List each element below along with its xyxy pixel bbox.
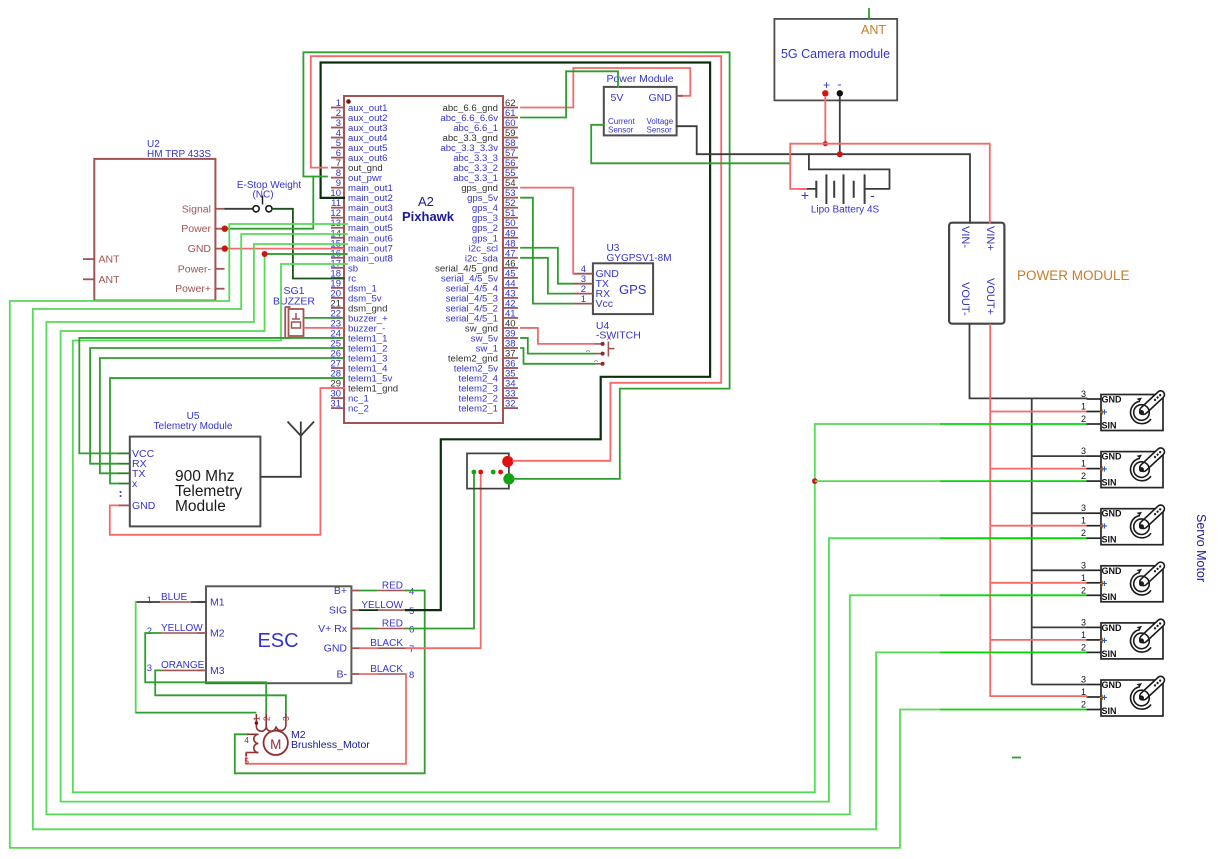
- svg-text:SIN: SIN: [1102, 706, 1117, 716]
- svg-text:x: x: [132, 478, 138, 490]
- E-stop right contact circle: [266, 206, 272, 212]
- POWER MODULE body: [949, 223, 1004, 324]
- svg-text:GND: GND: [1102, 509, 1123, 519]
- A2 pin 9 main_out1 stub: [331, 187, 344, 189]
- svg-text:Pixhawk: Pixhawk: [402, 209, 455, 224]
- junction dot U2 Power: [222, 226, 228, 232]
- wire ESC M3 to motor pin3: [155, 670, 286, 714]
- servo motor 1 body: [1101, 395, 1163, 431]
- wire U2 Power jog to out_pwr rail: [225, 177, 314, 229]
- svg-text:SIN: SIN: [1102, 535, 1117, 545]
- svg-text:Telemetry Module: Telemetry Module: [154, 421, 233, 432]
- servo motor 1 pin + stub/number/name: [1087, 411, 1102, 413]
- U5 hidden pins dots: [120, 491, 122, 493]
- svg-text:1: 1: [1081, 459, 1086, 469]
- servo 1 SIN bright segment: [940, 423, 1087, 425]
- A2 pin 4 aux_out4 stub: [331, 137, 344, 139]
- A2 pin 43 serial_4/5_3 stub: [503, 297, 518, 299]
- A2 pin 42 serial_4/5_2 stub: [503, 307, 518, 309]
- junction dot row16 wire: [262, 251, 268, 257]
- servo motor 3 pin + stub/number/name: [1087, 525, 1102, 527]
- wire net main_out loop A2 row14 to servo 5 SIN: [33, 234, 940, 829]
- wire net main_out loop A2 row17 to servo 1 SIN: [73, 264, 940, 792]
- motor M2 pin 4 lead: [247, 733, 258, 735]
- A2 pin 49 gps_1 stub: [503, 237, 518, 239]
- wire A2 pin24 to telemetry module (dark green): [79, 338, 344, 453]
- A2 pin 44 serial_4/5_4 stub: [503, 287, 518, 289]
- servo motor 2 pin + stub/number/name: [1087, 468, 1102, 470]
- A2 pin 36 telem2_5v stub: [503, 367, 518, 369]
- svg-text:VIN-: VIN-: [959, 226, 971, 248]
- svg-text:nc_2: nc_2: [348, 404, 369, 415]
- svg-text:GND: GND: [132, 500, 156, 512]
- svg-text:B+: B+: [334, 585, 347, 597]
- junction dot camera minus on black bus: [837, 151, 843, 157]
- U2 pin Power+ stub: [215, 288, 224, 290]
- svg-text:GND: GND: [1102, 566, 1123, 576]
- motor M2 top coil: [256, 726, 285, 731]
- svg-text:+: +: [823, 78, 830, 92]
- A2 pin 5 aux_out5 stub: [331, 147, 344, 149]
- servo GND bus branch 2: [1032, 455, 1087, 457]
- A2 pin 16 main_out8 stub: [331, 257, 344, 259]
- A2 Pixhawk pin-1 indicator dot: [346, 99, 351, 104]
- svg-text:SIN: SIN: [1102, 649, 1117, 659]
- U4 switch pin stubs and contacts: [594, 343, 602, 345]
- svg-text:Signal: Signal: [182, 203, 211, 215]
- motor M2 pin 5 lead: [247, 752, 258, 754]
- svg-text:SIN: SIN: [1102, 592, 1117, 602]
- antenna of telemetry module: [260, 436, 300, 477]
- svg-text:GND: GND: [1102, 452, 1123, 462]
- A2 pin 19 dsm_1 stub: [331, 287, 344, 289]
- svg-text:SIN: SIN: [1102, 478, 1117, 488]
- A2 pin 54 gps_gnd stub: [503, 187, 518, 189]
- svg-text:ESC: ESC: [257, 630, 298, 652]
- stray green dash bottom right: [1012, 757, 1021, 759]
- wire ESC M1 black segment: [191, 601, 206, 603]
- servo motor 6 pin + stub/number/name: [1087, 696, 1102, 698]
- servo motor 4 pin SIN stub/number/name: [1087, 594, 1102, 596]
- svg-text:telem2_1: telem2_1: [459, 404, 498, 415]
- op-amp-style MCU block A2 Pixhawk body: [344, 96, 503, 423]
- A2 pin 23 buzzer_- stub: [331, 327, 344, 329]
- svg-text:ANT: ANT: [861, 23, 886, 37]
- svg-text:ANT: ANT: [99, 254, 121, 266]
- svg-text:+: +: [1102, 522, 1108, 533]
- svg-text:3: 3: [281, 716, 291, 721]
- wire A2 pin26 to telemetry module (dark green): [100, 358, 344, 473]
- servo motor 1 pin SIN stub/number/name: [1087, 423, 1102, 425]
- A2 pin 22 buzzer_+ stub: [331, 317, 344, 319]
- wire net out_gnd: A2 pin7 loop to connector red dot: [311, 56, 721, 461]
- connector block body: [467, 453, 509, 488]
- A2 pin 12 main_out4 stub: [331, 217, 344, 219]
- svg-text:GPS: GPS: [619, 282, 647, 297]
- A2 pin 24 telem1_1 stub: [331, 337, 344, 339]
- A2 pin 21 dsm_gnd stub: [331, 307, 344, 309]
- servo motor 6 rotor icon: [1138, 675, 1166, 702]
- A2 pin 45 serial_4/5_5v stub: [503, 277, 518, 279]
- U2 pin ANT stub: [83, 278, 94, 280]
- A2 pin 47 i2c_sda stub: [503, 257, 518, 259]
- wire ESC GND up to connector (red): [360, 647, 377, 649]
- svg-text:31: 31: [330, 399, 341, 410]
- servo + bus bottom branch 6: [990, 695, 1086, 697]
- servo motor 6 pin SIN stub/number/name: [1087, 709, 1102, 711]
- A2 pin 38 sw_1 stub: [503, 347, 518, 349]
- motor M2 circle body: [264, 731, 288, 755]
- A2 pin 61 abc_6.6_6.6v stub: [503, 117, 518, 119]
- A2 pin 53 gps_5v stub: [503, 197, 518, 199]
- ESC body: [206, 586, 351, 683]
- svg-text:4: 4: [244, 735, 249, 745]
- A2 pin 27 telem1_4 stub: [331, 367, 344, 369]
- wire camera + down to red bus: [824, 96, 826, 144]
- svg-text:GND: GND: [1102, 680, 1123, 690]
- ESC pin GND stub: [351, 647, 360, 649]
- A2 pin 20 dsm_5v stub: [331, 297, 344, 299]
- A2 pin 34 telem2_3 stub: [503, 387, 518, 389]
- U3 pin 3 TX stub: [573, 283, 593, 285]
- battery + terminal stub: [798, 188, 816, 190]
- svg-text:Lipo Battery 4S: Lipo Battery 4S: [811, 205, 880, 216]
- buzzer SG1 body: [289, 309, 304, 336]
- wire A2 pin39 sw_5v to U4: [521, 338, 594, 354]
- camera + pin dot: [822, 90, 828, 96]
- camera - pin dot: [837, 90, 843, 96]
- A2 pin 32 telem2_1 stub: [503, 407, 518, 409]
- wire A2 pin54 gps_gnd to U3 GND: [521, 188, 573, 274]
- svg-text:8: 8: [409, 670, 414, 681]
- battery - terminal bracket: [809, 154, 890, 189]
- servo GND bus branch 6: [1032, 684, 1087, 686]
- wire net main_out loop A2 row15 to servo 4 SIN: [46, 244, 940, 814]
- servo motor 2 body: [1101, 452, 1163, 488]
- svg-text:B-: B-: [337, 669, 348, 681]
- wire Power Module Voltage Sensor to VIN- (black): [677, 126, 970, 223]
- svg-text:Power-: Power-: [178, 263, 212, 275]
- E-stop actuator lever: [262, 196, 264, 205]
- svg-text:2: 2: [147, 626, 152, 637]
- wire buzzer - to A2 pin23 buzzer_-: [304, 327, 345, 329]
- servo 4 SIN bright segment: [940, 594, 1087, 596]
- ESC pin M2 stub: [197, 632, 206, 634]
- svg-text:32: 32: [505, 399, 516, 410]
- wire A2 pin62 abc_6.6_gnd to Power Module GND: [521, 68, 690, 108]
- wire camera - to black bus: [839, 96, 841, 154]
- ESC pin V+ Rx stub: [351, 628, 360, 630]
- svg-text:7: 7: [409, 644, 414, 655]
- svg-text:2: 2: [1081, 700, 1086, 710]
- svg-text:-: -: [870, 187, 875, 203]
- A2 pin 10 main_out2 stub: [331, 197, 344, 199]
- svg-text:BUZZER: BUZZER: [273, 296, 315, 308]
- A2 pin 52 gps_4 stub: [503, 207, 518, 209]
- wire U2 Signal to E-stop left contact: [225, 208, 253, 210]
- svg-text:5G Camera module: 5G Camera module: [781, 47, 890, 61]
- svg-text:GND: GND: [1102, 623, 1123, 633]
- svg-text:GND: GND: [324, 643, 348, 655]
- wire A2 pin53 gps_5v to U3 Vcc: [521, 198, 573, 304]
- U4 switch bar: [607, 342, 609, 357]
- svg-text:2: 2: [1081, 642, 1086, 652]
- motor M2 pin 3 lead: [285, 714, 287, 726]
- wire net out_pwr/U2 Power: connector green dot loop: [303, 52, 729, 479]
- U2 pin Signal stub: [215, 208, 224, 210]
- U5 pin GND stub: [118, 504, 130, 506]
- servo motor 3 pin GND stub/number/name: [1087, 512, 1102, 514]
- svg-text:2: 2: [1081, 585, 1086, 595]
- svg-text:2: 2: [1081, 471, 1086, 481]
- servo motor 3 pin SIN stub/number/name: [1087, 537, 1102, 539]
- A2 pin 8 out_pwr stub: [331, 177, 344, 179]
- U3 pin 1 Vcc stub: [573, 303, 593, 305]
- svg-text:3: 3: [1081, 446, 1086, 456]
- servo + bus branch 3: [990, 525, 1086, 527]
- svg-text:ORANGE: ORANGE: [161, 660, 205, 671]
- svg-text:3: 3: [1081, 617, 1086, 627]
- svg-text:Sensor: Sensor: [647, 126, 673, 135]
- servo + bus branch 2: [990, 468, 1086, 470]
- svg-text:6: 6: [409, 625, 414, 636]
- wire ESC B- to motor pin5 loop (red): [360, 673, 377, 675]
- servo motor 4 body: [1101, 566, 1163, 602]
- connector big green pin dot: [503, 473, 514, 484]
- wire VOUT+ to servo + bus (red): [989, 324, 991, 696]
- servo motor 4 rotor icon: [1138, 561, 1166, 588]
- servo motor 5 pin + stub/number/name: [1087, 639, 1102, 641]
- ESC pin B- stub: [351, 673, 360, 675]
- wire ESC M1 to motor pin1: [135, 602, 137, 713]
- servo motor 5 pin GND stub/number/name: [1087, 626, 1102, 628]
- servo motor 4 pin GND stub/number/name: [1087, 569, 1102, 571]
- ESC pin M1 stub: [197, 601, 206, 603]
- A2 pin 55 abc_3.3_1 stub: [503, 177, 518, 179]
- wire VOUT- to servo GND bus (black): [970, 324, 1087, 399]
- svg-text:2: 2: [1081, 414, 1086, 424]
- ESC pin B+ stub: [351, 590, 360, 592]
- A2 pin 3 aux_out3 stub: [331, 127, 344, 129]
- svg-text:5: 5: [244, 756, 249, 766]
- servo 6 SIN bright segment: [940, 709, 1087, 711]
- U2 pin ANT stub: [83, 258, 94, 260]
- svg-text:3: 3: [1081, 675, 1086, 685]
- A2 pin 39 sw_5v stub: [503, 337, 518, 339]
- servo motor 5 pin SIN stub/number/name: [1087, 651, 1102, 653]
- wire Power Module Current Sensor to battery +: [591, 125, 790, 164]
- servo motor 4 pin + stub/number/name: [1087, 582, 1102, 584]
- A2 pin 59 abc_3.3_gnd stub: [503, 137, 518, 139]
- svg-text:+: +: [1102, 408, 1108, 419]
- svg-text:Power+: Power+: [175, 283, 211, 295]
- svg-text:-: -: [838, 77, 842, 91]
- junction dot U2 GND: [222, 245, 228, 251]
- servo 5 SIN bright segment: [940, 651, 1087, 653]
- junction dot camera plus on red bus: [823, 141, 828, 146]
- svg-text:-SWITCH: -SWITCH: [596, 330, 641, 342]
- svg-text:GND: GND: [1102, 395, 1123, 405]
- U3 pin 4 GND stub: [573, 273, 593, 275]
- 5G camera module body: [774, 19, 897, 101]
- servo + bus branch 4: [990, 582, 1086, 584]
- svg-text:GND: GND: [649, 92, 673, 104]
- servo2 SIN branch from loop junction: [812, 478, 818, 484]
- A2 pin 7 out_gnd stub: [331, 167, 344, 169]
- A2 pin 17 sb stub: [331, 267, 344, 269]
- svg-text:M: M: [270, 737, 281, 752]
- svg-text:M2: M2: [210, 628, 225, 640]
- svg-text:5: 5: [409, 606, 414, 617]
- A2 pin 26 telem1_3 stub: [331, 357, 344, 359]
- A2 pin 48 i2c_scl stub: [503, 247, 518, 249]
- A2 pin 28 telem1_5v stub: [331, 377, 344, 379]
- svg-text:3: 3: [1081, 503, 1086, 513]
- U2 pin Power- stub: [215, 268, 224, 270]
- wire A2 pin40 sw_gnd to U4: [521, 328, 594, 344]
- A2 pin 35 telem2_4 stub: [503, 377, 518, 379]
- servo motor 5 rotor icon: [1138, 618, 1166, 645]
- wire A2 pin38 sw_1 to U4: [521, 348, 594, 364]
- wire ESC B+ to motor pin4 loop: [235, 591, 425, 774]
- GPS module U3 body: [593, 263, 653, 314]
- Power Module body: [604, 87, 677, 135]
- servo GND bus branch 4: [1032, 569, 1087, 571]
- svg-text:ANT: ANT: [99, 274, 121, 286]
- wire battery + to VIN+ (red): [790, 144, 990, 223]
- Lipo battery plates: [815, 181, 817, 198]
- E-stop left contact circle: [253, 206, 259, 212]
- svg-text:1: 1: [1081, 516, 1086, 526]
- svg-text:SIN: SIN: [1102, 421, 1117, 431]
- servo + bus branch 1: [990, 411, 1086, 413]
- svg-text:A2: A2: [418, 194, 434, 209]
- A2 pin 15 main_out7 stub: [331, 247, 344, 249]
- U3 pin 2 RX stub: [573, 293, 593, 295]
- U5 pin VCC stub: [118, 452, 130, 454]
- wire A2 pin16 dark segment to junction: [265, 253, 347, 255]
- wire A2 pin61 abc_6.6_6.6v to Power Module 5V: [521, 71, 618, 117]
- U2 pin GND stub: [215, 248, 224, 250]
- A2 pin 58 abc_3.3_3.3v stub: [503, 147, 518, 149]
- servo motor 5 body: [1101, 623, 1163, 659]
- wire net main_out loop A2 row13 to servo 6 SIN: [10, 224, 940, 848]
- A2 pin 56 abc_3.3_2 stub: [503, 167, 518, 169]
- servo motor 1 pin GND stub/number/name: [1087, 398, 1102, 400]
- svg-text:1: 1: [1081, 573, 1086, 583]
- A2 pin 14 main_out6 stub: [331, 237, 344, 239]
- servo motor 3 body: [1101, 509, 1163, 545]
- ESC pin SIG stub: [351, 609, 360, 611]
- svg-text:+: +: [1102, 579, 1108, 590]
- wire U2 GND to A2 pin15 main_out7: [225, 248, 345, 250]
- wire ESC SIG to A2 main_out2 (dark): [360, 609, 377, 611]
- A2 pin 18 rc stub: [331, 277, 344, 279]
- svg-text:Servo Motor: Servo Motor: [1194, 514, 1208, 582]
- svg-text:1: 1: [1081, 402, 1086, 412]
- servo GND bus vertical: [1031, 398, 1033, 684]
- wire ESC M2 to motor pin2: [145, 633, 266, 714]
- U5 pin x stub: [118, 483, 130, 485]
- wire ESC V+Rx up to connector: [360, 628, 377, 630]
- A2 pin 6 aux_out6 stub: [331, 157, 344, 159]
- wire A2 pin48 i2c_scl to U3 TX: [521, 248, 573, 284]
- A2 pin 29 telem1_gnd stub: [331, 387, 344, 389]
- svg-text:M1: M1: [210, 597, 225, 609]
- U5 pin RX stub: [118, 463, 130, 465]
- A2 pin 57 abc_3.3_3 stub: [503, 157, 518, 159]
- svg-text:3: 3: [1081, 560, 1086, 570]
- svg-text:4: 4: [409, 587, 414, 598]
- A2 pin 51 gps_3 stub: [503, 217, 518, 219]
- servo + bus branch 5: [990, 639, 1086, 641]
- servo motor 3 rotor icon: [1138, 503, 1166, 530]
- A2 pin 13 main_out5 stub: [331, 227, 344, 229]
- servo 3 SIN bright segment: [940, 537, 1087, 539]
- A2 pin 41 serial_4/5_1 stub: [503, 317, 518, 319]
- svg-text:1: 1: [147, 595, 152, 606]
- wire buzzer + to A2 pin22 buzzer_+: [304, 317, 345, 319]
- svg-text:SIG: SIG: [329, 605, 347, 617]
- svg-text:3: 3: [147, 663, 152, 674]
- connector small pins dots: [472, 470, 477, 475]
- svg-text:Vcc: Vcc: [596, 298, 614, 310]
- svg-text:VOUT+: VOUT+: [984, 278, 996, 315]
- motor M2 pin 1 lead: [255, 714, 257, 726]
- A2 pin 40 sw_gnd stub: [503, 327, 518, 329]
- svg-text:1: 1: [252, 716, 262, 721]
- svg-text:V+ Rx: V+ Rx: [318, 623, 348, 635]
- A2 pin 2 aux_out2 stub: [331, 117, 344, 119]
- svg-text:1: 1: [1081, 630, 1086, 640]
- svg-text:POWER MODULE: POWER MODULE: [1017, 268, 1130, 283]
- A2 pin 62 abc_6.6_gnd stub: [503, 107, 518, 109]
- servo motor 2 pin SIN stub/number/name: [1087, 480, 1102, 482]
- A2 pin 33 telem2_2 stub: [503, 397, 518, 399]
- A2 pin 60 abc_6.6_1 stub: [503, 127, 518, 129]
- motor M2 pin 2 lead: [265, 714, 267, 726]
- connector big red pin dot: [502, 456, 513, 467]
- svg-text:Sensor: Sensor: [608, 126, 634, 135]
- buzzer SG1 internal piezo symbol: [295, 313, 297, 319]
- svg-text:HM TRP 433S: HM TRP 433S: [147, 149, 211, 160]
- svg-text:Brushless_Motor: Brushless_Motor: [291, 739, 370, 751]
- wire A2 pin28 to telemetry module (dark green): [110, 378, 344, 483]
- U4 tiny contact marks: [607, 338, 611, 341]
- wire A2 pin25 to telemetry module (dark green): [90, 348, 344, 464]
- wire A2 pin47 i2c_sda to U3 RX: [521, 258, 573, 294]
- svg-text:+: +: [1102, 693, 1108, 704]
- svg-text:Power: Power: [181, 223, 211, 235]
- svg-text:Power Module: Power Module: [606, 73, 673, 85]
- wire E-stop right contact to A2 pin18 rc: [272, 209, 344, 279]
- servo GND bus branch 3: [1032, 512, 1087, 514]
- A2 pin 50 gps_2 stub: [503, 227, 518, 229]
- wire U5 GND to A2 pin29 telem1_gnd: [110, 388, 344, 535]
- svg-text:+: +: [1102, 465, 1108, 476]
- camera ANT pin wire: [868, 8, 870, 19]
- ESC pin M3 stub: [197, 669, 206, 671]
- A2 pin 11 main_out3 stub: [331, 207, 344, 209]
- svg-text:1: 1: [581, 294, 586, 305]
- svg-text:5V: 5V: [611, 92, 624, 104]
- servo motor 6 pin GND stub/number/name: [1087, 684, 1102, 686]
- U2 pin Power stub: [215, 228, 224, 230]
- svg-text:2: 2: [1081, 528, 1086, 538]
- A2 pin 25 telem1_2 stub: [331, 347, 344, 349]
- servo motor 1 rotor icon: [1138, 389, 1166, 416]
- A2 pin 46 serial_4/5_gnd stub: [503, 267, 518, 269]
